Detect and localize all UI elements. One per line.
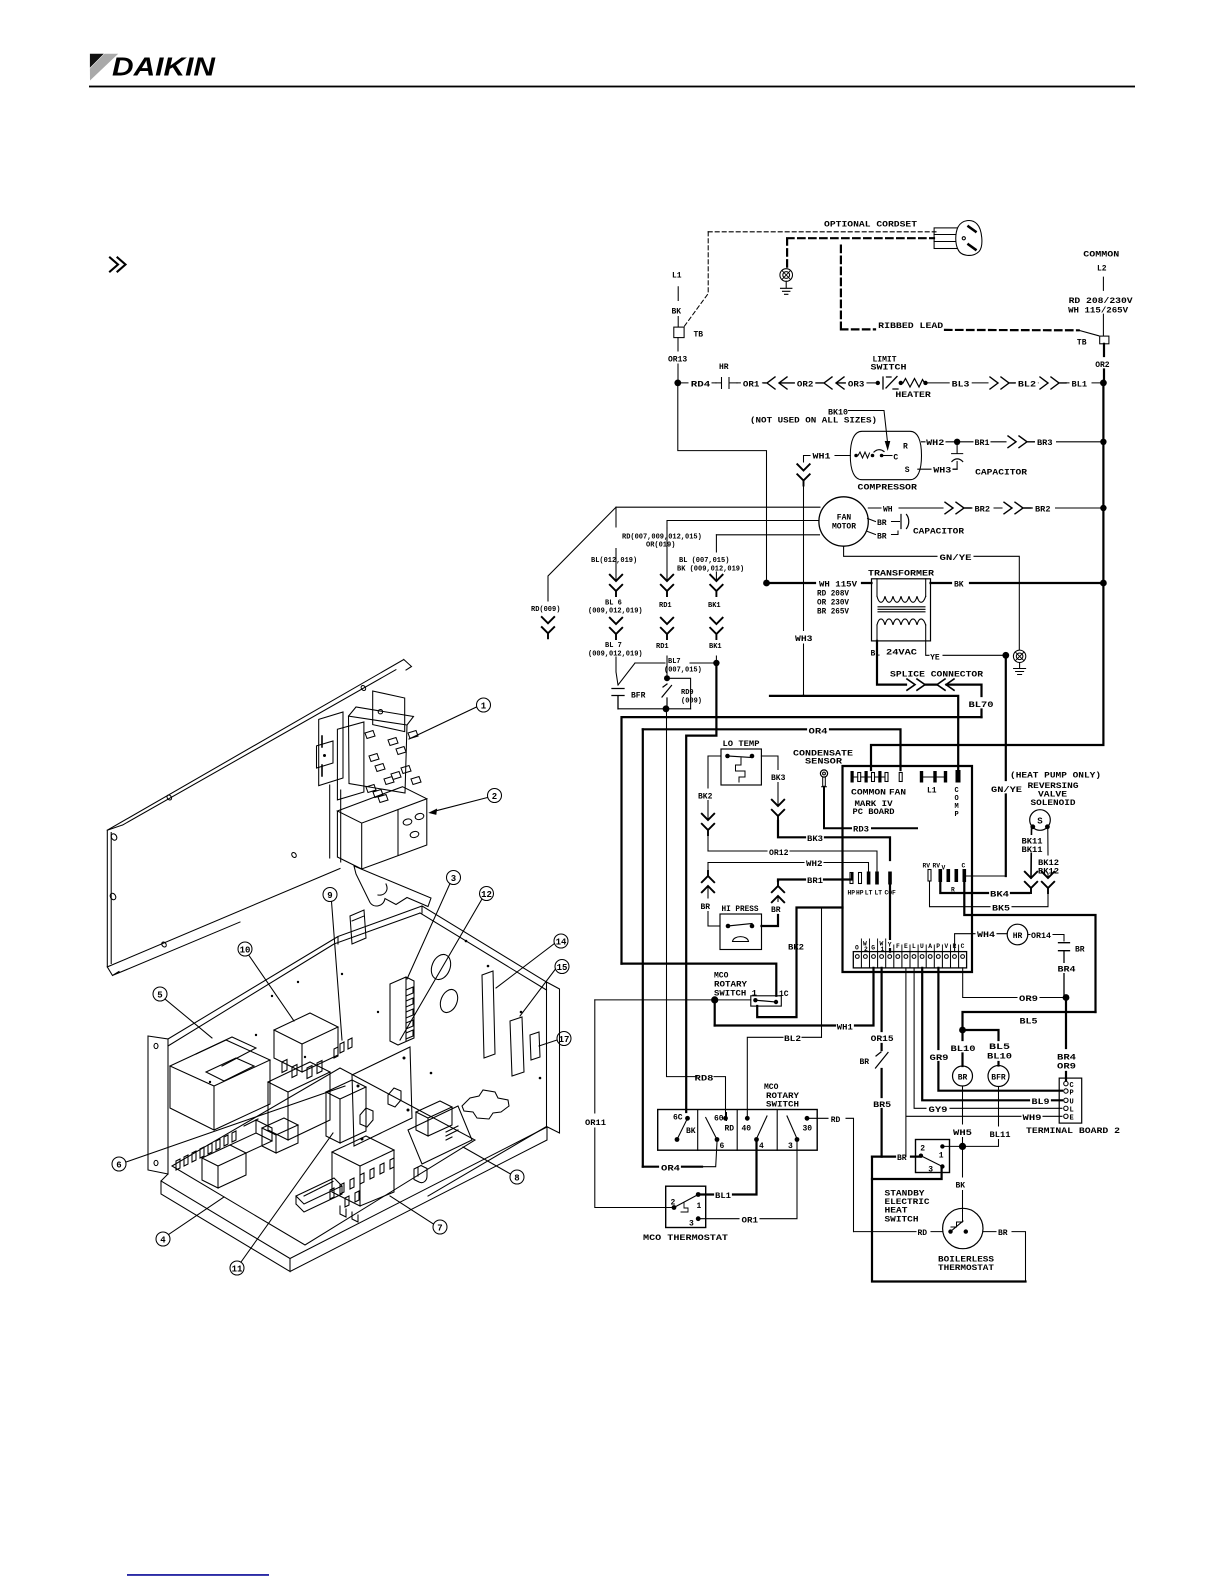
- wire BL2: [747, 1037, 821, 1117]
- svg-text:R: R: [953, 943, 957, 950]
- wire BK5: [930, 881, 1049, 907]
- svg-text:SWITCH: SWITCH: [766, 1100, 799, 1109]
- dip strip: [296, 1178, 342, 1212]
- wire dashed ribbed lead heavy: [787, 238, 934, 267]
- fan motor: [819, 497, 868, 546]
- svg-text:OR4: OR4: [661, 1165, 680, 1174]
- svg-text:TERMINAL BOARD 2: TERMINAL BOARD 2: [1026, 1127, 1120, 1136]
- svg-text:S: S: [905, 466, 910, 475]
- wire P/GR9: [938, 968, 1062, 1091]
- board right terminals RV RV V R C: [928, 870, 931, 882]
- svg-text:RD1: RD1: [656, 643, 669, 651]
- svg-text:OR3: OR3: [848, 381, 865, 390]
- relay HR: [1007, 924, 1028, 945]
- disconnect BL 2nd: [610, 618, 622, 639]
- svg-text:BL10: BL10: [951, 1045, 976, 1054]
- svg-text:BR: BR: [701, 903, 711, 912]
- svg-text:RD 208V: RD 208V: [817, 589, 849, 598]
- callout 1: [477, 698, 491, 712]
- svg-text:BK: BK: [956, 1182, 966, 1191]
- svg-text:ROTARY: ROTARY: [714, 981, 747, 990]
- wire BL1 seg: [1066, 382, 1100, 384]
- transformer iso: [170, 1040, 270, 1130]
- disconnect BK3: [772, 800, 784, 821]
- upper bracket piece: [354, 866, 431, 907]
- wire BR1 to board: [778, 874, 852, 881]
- wire BR1: [960, 441, 1006, 443]
- wire dashed cordset top: [708, 231, 936, 233]
- svg-text:BL (007,015): BL (007,015): [679, 557, 729, 565]
- callout 10: [238, 942, 252, 956]
- contactor 7: [332, 1136, 394, 1206]
- svg-text:L2: L2: [1097, 265, 1107, 274]
- svg-text:BR: BR: [1075, 946, 1085, 955]
- capacitor BR: [1059, 943, 1070, 995]
- Daikin logo mark: [90, 52, 216, 82]
- solenoid S: [1030, 810, 1051, 831]
- svg-text:BR5: BR5: [873, 1101, 891, 1110]
- wire YE: [926, 641, 1002, 655]
- svg-text:U: U: [1070, 1099, 1074, 1107]
- svg-text:(HEAT PUMP ONLY): (HEAT PUMP ONLY): [1010, 771, 1101, 780]
- svg-text:11: 11: [232, 1265, 243, 1275]
- callout 7: [433, 1220, 447, 1234]
- svg-text:C: C: [962, 863, 966, 870]
- header rule: [89, 86, 1135, 88]
- callout 14: [554, 934, 568, 948]
- svg-text:RD 208/230V: RD 208/230V: [1069, 297, 1133, 306]
- disconnect WH1: [797, 464, 809, 485]
- svg-text:WH1: WH1: [813, 453, 831, 462]
- wire OR11: [595, 1000, 672, 1208]
- wire WH3/S lead: [918, 468, 957, 470]
- svg-text:BL5: BL5: [1020, 1018, 1038, 1027]
- svg-text:BR1: BR1: [975, 439, 990, 448]
- wire OR12: [708, 851, 877, 872]
- contactor box2: [337, 787, 426, 869]
- wire WH1 compressor: [804, 456, 851, 463]
- svg-text:HR: HR: [719, 363, 729, 372]
- svg-text:V: V: [944, 943, 948, 950]
- callout 4: [156, 1232, 170, 1246]
- wire to BFR coil: [963, 1030, 999, 1066]
- svg-text:OPTIONAL CORDSET: OPTIONAL CORDSET: [824, 221, 917, 230]
- svg-text:BL(012,019): BL(012,019): [591, 557, 637, 565]
- svg-text:F: F: [896, 943, 900, 950]
- svg-text:TB: TB: [694, 331, 704, 340]
- wire OR1: [737, 382, 764, 384]
- wire BK12: [1047, 829, 1049, 878]
- wire fan GN/YE: [844, 546, 1020, 650]
- svg-text:MCO THERMOSTAT: MCO THERMOSTAT: [643, 1234, 728, 1243]
- svg-text:LT: LT: [875, 890, 883, 897]
- svg-text:BL7: BL7: [668, 658, 681, 666]
- wire primary y583: [767, 582, 872, 584]
- wire OR1: [698, 1140, 797, 1219]
- leader 7: [390, 1196, 434, 1224]
- relay BR coil: [953, 1066, 973, 1086]
- wire BL70 right end: [770, 695, 804, 697]
- svg-text:RD3: RD3: [853, 826, 869, 835]
- rotary bank: [390, 977, 414, 1045]
- callout 2: [488, 789, 502, 803]
- svg-text:WH9: WH9: [1023, 1114, 1042, 1123]
- svg-text:RV: RV: [923, 863, 931, 870]
- svg-text:OR11: OR11: [585, 1119, 606, 1128]
- wire BK2 lo temp left: [708, 756, 721, 820]
- wire OR4 bottom: [643, 1166, 702, 1168]
- wire diagonal to RD(009): [548, 507, 616, 601]
- wire BL2 vertical top: [821, 908, 823, 1038]
- wire BK2 from board: [757, 908, 842, 1018]
- wire BL3: [927, 382, 988, 384]
- wire BL11: [965, 1087, 999, 1147]
- wire dashed ribbed lead lower: [841, 246, 1079, 331]
- svg-text:G: G: [871, 945, 875, 952]
- terminal tabs column: [176, 1131, 236, 1170]
- svg-text:12: 12: [481, 890, 492, 900]
- small relays left: [202, 1145, 246, 1188]
- wire L2: [1102, 277, 1104, 336]
- wire hi press right / BR1: [762, 915, 779, 926]
- wire fan left leads: [616, 507, 820, 535]
- wire fan WH: [868, 507, 943, 509]
- svg-text:BK: BK: [954, 580, 964, 589]
- wire BL7 link: [618, 663, 716, 685]
- relay assembly bracket plates: [319, 712, 364, 800]
- PC board box: [843, 766, 973, 972]
- svg-text:WH4: WH4: [977, 931, 995, 940]
- wire WH1 drop: [714, 1000, 716, 1026]
- svg-text:E: E: [1070, 1115, 1074, 1123]
- svg-text:BL3: BL3: [952, 381, 970, 390]
- wire OR13: [677, 338, 679, 383]
- svg-text:WH 115/265V: WH 115/265V: [1068, 307, 1128, 316]
- wire BR E-line: [872, 1155, 919, 1157]
- node junction right main: [1100, 380, 1107, 387]
- svg-text:BR: BR: [877, 532, 887, 541]
- svg-text:BOILERLESS: BOILERLESS: [938, 1255, 994, 1264]
- svg-text:30: 30: [803, 1124, 813, 1133]
- svg-text:OR12: OR12: [769, 849, 789, 858]
- wire RD8 vertical: [667, 709, 698, 1077]
- svg-text:BL1: BL1: [1072, 381, 1088, 390]
- wire L1: [677, 287, 679, 327]
- svg-text:1: 1: [697, 1202, 702, 1211]
- wire BR2: [971, 507, 1002, 509]
- leader 15: [520, 969, 556, 1016]
- svg-text:R: R: [903, 442, 908, 451]
- callout 15: [555, 960, 569, 974]
- svg-text:(009): (009): [681, 698, 702, 706]
- svg-text:BFR: BFR: [991, 1074, 1006, 1083]
- svg-text:YE: YE: [930, 654, 940, 663]
- standby electric heat switch: [916, 1140, 950, 1173]
- svg-text:BK: BK: [672, 308, 682, 317]
- svg-text:MCO: MCO: [714, 972, 729, 981]
- svg-text:OR1: OR1: [743, 381, 760, 390]
- svg-text:BR2: BR2: [975, 506, 991, 515]
- wire BL1: [698, 1140, 756, 1195]
- quick-connect right pair: [1040, 377, 1066, 389]
- wire BK1 down: [686, 663, 716, 1112]
- wire BK secondary y583: [931, 582, 1101, 584]
- section chevrons: [110, 258, 126, 272]
- svg-text:BR4: BR4: [1058, 966, 1076, 975]
- wire WH3 vertical: [803, 486, 805, 696]
- terminal TB right: [1100, 336, 1109, 344]
- svg-text:THERMOSTAT: THERMOSTAT: [938, 1264, 994, 1273]
- svg-text:C: C: [955, 787, 959, 795]
- disconnect BK2: [702, 814, 714, 835]
- svg-text:RD8: RD8: [695, 1074, 714, 1083]
- tabs row 2: [330, 1158, 394, 1199]
- svg-text:OR15: OR15: [871, 1035, 894, 1044]
- footer blue line: [127, 1574, 269, 1576]
- svg-text:RD: RD: [918, 1229, 928, 1238]
- pcb: [172, 1068, 475, 1245]
- wire BK11: [1030, 829, 1033, 878]
- plate with hex holes: [352, 1047, 412, 1146]
- svg-text:GN/YE: GN/YE: [940, 554, 972, 563]
- svg-text:P: P: [1070, 1090, 1074, 1098]
- leader 10: [249, 956, 294, 1022]
- box right wall: [420, 906, 560, 1196]
- wire BK10 pointer: [849, 411, 888, 443]
- wire BR down from WH2: [707, 863, 709, 872]
- svg-text:40: 40: [742, 1124, 752, 1133]
- svg-text:6: 6: [116, 1161, 121, 1171]
- svg-text:SPLICE CONNECTOR: SPLICE CONNECTOR: [890, 671, 983, 680]
- svg-text:OR2: OR2: [1095, 361, 1110, 370]
- box tray: [161, 1127, 547, 1272]
- svg-text:P: P: [936, 943, 940, 950]
- svg-text:CAPACITOR: CAPACITOR: [975, 468, 1027, 477]
- wire OR2 seg: [795, 378, 816, 387]
- svg-text:BK3: BK3: [807, 835, 823, 844]
- svg-text:FAN: FAN: [889, 788, 906, 797]
- wire OR14: [1028, 935, 1064, 942]
- svg-text:BL: BL: [871, 649, 881, 658]
- callout 9: [323, 888, 337, 902]
- svg-text:WH3: WH3: [795, 635, 813, 644]
- svg-text:HEATER: HEATER: [895, 391, 931, 400]
- compressor body: [850, 431, 921, 479]
- svg-text:6C: 6C: [673, 1113, 683, 1122]
- node ground junction: [1002, 652, 1009, 659]
- tray cross cutout: [462, 1090, 509, 1119]
- node junction WH5: [959, 1143, 966, 1150]
- svg-text:OR9: OR9: [1057, 1063, 1076, 1072]
- svg-text:BK: BK: [686, 1127, 696, 1136]
- svg-text:RD(007,009,012,015): RD(007,009,012,015): [622, 534, 702, 542]
- wire GY9: [914, 968, 1062, 1108]
- callout 17: [557, 1032, 571, 1046]
- svg-text:DAIKIN: DAIKIN: [112, 52, 216, 82]
- node OR9 junction: [1063, 994, 1070, 1001]
- capacitor fan: [901, 515, 909, 529]
- svg-text:WH2: WH2: [926, 439, 944, 448]
- wire BK3 lo temp right: [761, 756, 778, 806]
- wire BL7 to BFR: [616, 657, 618, 685]
- wire BK1 column: [715, 535, 717, 661]
- svg-text:60: 60: [714, 1114, 724, 1123]
- mid relay block: [268, 1062, 330, 1140]
- wire BFR bottom: [618, 708, 691, 710]
- ground symbol top: [780, 269, 793, 295]
- svg-text:4: 4: [160, 1236, 166, 1246]
- svg-text:O: O: [955, 795, 959, 803]
- svg-text:BK3: BK3: [771, 774, 786, 783]
- svg-text:(009,012,019): (009,012,019): [588, 608, 643, 616]
- svg-text:HI PRESS: HI PRESS: [722, 905, 759, 914]
- svg-text:V: V: [942, 865, 946, 872]
- svg-text:(NOT USED ON ALL SIZES): (NOT USED ON ALL SIZES): [750, 416, 877, 425]
- svg-text:PC BOARD: PC BOARD: [853, 808, 895, 817]
- node BFR bottom junction: [663, 705, 670, 712]
- svg-text:BK (009,012,019): BK (009,012,019): [677, 566, 744, 574]
- small terminals near 9: [334, 1038, 352, 1058]
- box back wall: [168, 906, 422, 1046]
- wire WH9: [906, 968, 1062, 1157]
- svg-text:SENSOR: SENSOR: [805, 757, 842, 766]
- wire BL column: [615, 507, 617, 581]
- svg-text:BL2: BL2: [1018, 381, 1036, 390]
- board top jumpers COMMON/FAN: [851, 771, 854, 783]
- svg-text:OR1: OR1: [742, 1217, 759, 1226]
- wire pin1 to junction: [942, 1145, 960, 1147]
- svg-text:WH: WH: [883, 506, 893, 515]
- svg-text:BL9: BL9: [1032, 1098, 1050, 1107]
- leader 3: [407, 884, 450, 980]
- svg-text:LT: LT: [865, 890, 873, 897]
- leader 11: [241, 1133, 333, 1262]
- svg-text:1: 1: [939, 1152, 944, 1161]
- callout 8: [510, 1170, 524, 1184]
- relay BFR coil: [988, 1066, 1009, 1087]
- svg-text:RIBBED LEAD: RIBBED LEAD: [878, 322, 943, 331]
- relay 10: [274, 1013, 338, 1072]
- wire RD from 30: [807, 1118, 854, 1231]
- wire OR9: [963, 968, 1064, 998]
- svg-text:GN/YE: GN/YE: [991, 786, 1022, 795]
- svg-text:OR4: OR4: [809, 727, 828, 736]
- node junction left main: [674, 380, 681, 387]
- wire BL2 seg: [1015, 382, 1038, 384]
- svg-text:5: 5: [157, 991, 162, 1001]
- svg-text:OR13: OR13: [668, 356, 687, 365]
- leader 17: [539, 1040, 557, 1046]
- svg-text:OR(019): OR(019): [646, 542, 675, 550]
- svg-text:L1: L1: [927, 786, 937, 795]
- disconnect BR up arrow: [702, 871, 714, 892]
- board top jumpers L1: [920, 771, 923, 783]
- leader 2: [434, 798, 488, 812]
- leader 4: [169, 1197, 225, 1235]
- svg-text:COMMON: COMMON: [1083, 251, 1119, 260]
- wire fan BR upper: [868, 519, 900, 522]
- contact BFR: [612, 689, 624, 709]
- wire WH3 to COMP: [804, 696, 959, 770]
- MCO thermostat: [666, 1186, 706, 1227]
- leader 9: [332, 902, 343, 1041]
- quick-connect right pair: [945, 502, 971, 514]
- wire C-board to relays: [964, 882, 1095, 1012]
- label BR4: [1056, 963, 1078, 973]
- wire BK2 to OR12: [707, 835, 709, 851]
- svg-text:6: 6: [720, 1142, 725, 1151]
- svg-text:C: C: [961, 943, 965, 950]
- svg-text:BK2: BK2: [698, 793, 713, 802]
- svg-text:COMMON: COMMON: [851, 788, 886, 797]
- svg-text:9: 9: [327, 891, 332, 901]
- leader 8: [463, 1147, 511, 1174]
- svg-text:O: O: [855, 945, 859, 952]
- wire OR4 top: [643, 729, 901, 770]
- wire main RD4: [681, 382, 716, 384]
- svg-text:COMPRESSOR: COMPRESSOR: [858, 483, 918, 492]
- svg-text:ELECTRIC: ELECTRIC: [885, 1198, 930, 1207]
- svg-text:FAN: FAN: [837, 514, 852, 523]
- quick-connect pair: [764, 377, 796, 389]
- node BL10 junction: [959, 1027, 966, 1034]
- svg-text:LO TEMP: LO TEMP: [723, 740, 760, 749]
- compressor internals: [854, 454, 858, 458]
- svg-text:BL70: BL70: [969, 701, 994, 710]
- wire BR bottom loop: [872, 1179, 1026, 1282]
- board bottom terminals HP HP LT LT COF: [850, 873, 853, 884]
- wire RD3: [824, 787, 917, 828]
- wire RD boilerless: [854, 1231, 943, 1233]
- svg-text:HP: HP: [848, 890, 856, 897]
- quick-connect right pair: [990, 377, 1015, 389]
- svg-text:RD4: RD4: [691, 381, 711, 390]
- svg-text:CAPACITOR: CAPACITOR: [913, 528, 964, 537]
- svg-text:L1: L1: [672, 272, 682, 281]
- svg-text:BR3: BR3: [1037, 439, 1053, 448]
- wire left bus drop: [678, 383, 767, 583]
- disconnect RD(009): [542, 617, 554, 638]
- svg-text:RD9: RD9: [681, 689, 694, 697]
- svg-text:RD(009): RD(009): [531, 606, 560, 614]
- svg-text:10: 10: [240, 946, 251, 956]
- node BL7 junction: [713, 660, 719, 666]
- svg-text:STANDBY: STANDBY: [885, 1189, 925, 1198]
- ground symbol mid: [1013, 650, 1025, 662]
- wire WH5: [962, 1086, 964, 1146]
- svg-text:24VAC: 24VAC: [886, 648, 917, 657]
- svg-text:BR1: BR1: [807, 877, 823, 886]
- svg-text:TRANSFORMER: TRANSFORMER: [868, 569, 934, 578]
- bent tab: [414, 1166, 427, 1183]
- svg-text:1: 1: [881, 946, 885, 953]
- svg-text:14: 14: [556, 938, 567, 948]
- wire dashed cordset vertical: [685, 232, 709, 326]
- svg-text:BR: BR: [958, 1074, 968, 1083]
- svg-text:BR: BR: [771, 906, 781, 915]
- quick-connect right pair: [1008, 436, 1034, 448]
- svg-text:7: 7: [437, 1224, 442, 1234]
- svg-text:WH5: WH5: [953, 1129, 972, 1138]
- lid panel: [107, 660, 411, 967]
- wire BR boilerless: [983, 1232, 1026, 1282]
- wire BK4: [940, 882, 1029, 893]
- svg-text:C: C: [893, 453, 898, 462]
- disconnect RD1 2nd: [661, 618, 673, 639]
- callout 11: [230, 1261, 244, 1275]
- wire BL9: [922, 968, 1062, 1100]
- relay assembly back plate: [373, 691, 405, 732]
